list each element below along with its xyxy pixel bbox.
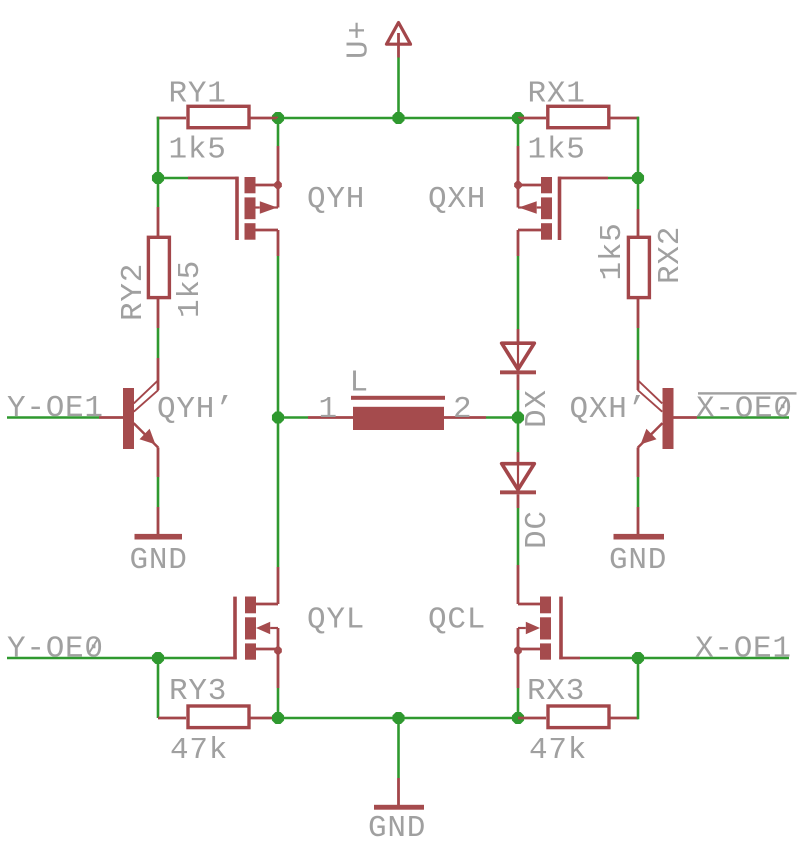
wire QYL source down	[277, 651, 280, 719]
label Y-OE1	[7, 391, 104, 426]
junction top rail / QXH source	[512, 112, 524, 124]
wire net Y-OE1	[7, 416, 99, 419]
svg-text:RY2: RY2	[116, 263, 151, 321]
wire top rail left segment	[278, 117, 399, 120]
junction top rail / QYH source	[272, 112, 284, 124]
svg-text:RX2: RX2	[653, 226, 688, 284]
svg-text:DC: DC	[520, 510, 555, 549]
wire GND stem	[397, 718, 400, 805]
wire net X-OE1	[638, 657, 789, 660]
junction top rail / V+	[392, 112, 404, 124]
diode DX	[500, 329, 536, 390]
label QYH'	[157, 392, 234, 427]
svg-text:RX3: RX3	[527, 674, 585, 709]
resistor RX1	[518, 106, 639, 127]
resistor RY1	[157, 106, 278, 127]
svg-text:GND: GND	[609, 543, 667, 578]
junction X-OE1 / RX3	[632, 652, 644, 664]
wire Y-OE0 node down to RY3	[157, 658, 160, 718]
label RY2	[116, 263, 151, 321]
label Y-OE0	[7, 632, 104, 667]
label DX	[520, 389, 555, 428]
svg-text:QYH’: QYH’	[157, 392, 234, 427]
wire RY2 to QYH' collector	[157, 328, 160, 390]
junction X gate node	[632, 172, 644, 184]
label RX1	[528, 77, 586, 112]
wire RX2 to QXH' collector	[637, 328, 640, 390]
label GND (bottom)	[368, 811, 426, 846]
wire QYH drain down	[277, 230, 280, 418]
wire bottom rail left segment	[278, 717, 399, 720]
wire QYH source to top rail	[277, 118, 280, 185]
junction Y gate node	[152, 172, 164, 184]
wire gate node to RY2	[157, 178, 160, 236]
label L	[350, 366, 369, 401]
wire bottom rail right segment	[399, 717, 519, 720]
wire QXH drain down to DX	[517, 230, 520, 329]
label QXH'	[570, 392, 647, 427]
wire QCL gate to X-OE1 node	[559, 657, 638, 660]
wire node to DC	[517, 418, 520, 453]
label RX3	[527, 674, 585, 709]
label GND (right)	[609, 543, 667, 578]
svg-text:GND: GND	[130, 543, 188, 578]
value 1k5 (RY2)	[173, 260, 208, 318]
wire gate node to QYH gate	[158, 177, 239, 180]
pin 2 label	[453, 392, 472, 427]
resistor RY3	[158, 706, 278, 728]
svg-text:QYH: QYH	[307, 182, 365, 217]
value 1k5 (RX1)	[528, 133, 586, 168]
svg-text:RY1: RY1	[169, 77, 227, 112]
svg-text:L: L	[350, 366, 369, 401]
pin 1 label	[319, 392, 338, 427]
wire net Y-OE0	[7, 657, 158, 660]
label RY3	[169, 674, 227, 709]
wire QXH gate to X gate node	[558, 177, 638, 180]
wire QCL source down	[517, 651, 520, 719]
svg-text:X-OE1: X-OE1	[695, 632, 792, 667]
value 47k (RX3)	[529, 733, 587, 768]
wire QYL drain up	[277, 418, 280, 605]
junction bottom rail right	[512, 712, 524, 724]
svg-text:DX: DX	[520, 389, 555, 428]
ground (right)	[614, 534, 665, 540]
svg-text:QXH: QXH	[428, 182, 486, 217]
label RX2	[653, 226, 688, 284]
label QYL	[307, 603, 365, 638]
label GND (left)	[130, 543, 188, 578]
wire net X-OE0	[697, 416, 789, 419]
wire gate node to RX2	[637, 178, 640, 236]
transistor QYL	[235, 597, 282, 660]
svg-text:1k5: 1k5	[169, 133, 227, 168]
junction bottom rail / GND stem	[392, 712, 404, 724]
transistor QYH'	[99, 381, 158, 449]
wire RX1 right to X gate node	[637, 117, 640, 178]
label QCL	[428, 603, 486, 638]
ground (bottom)	[374, 805, 424, 810]
wire Y-OE0 to QYL gate	[158, 657, 237, 660]
label QYH	[307, 182, 365, 217]
svg-text:1: 1	[319, 392, 338, 427]
svg-text:QXH’: QXH’	[570, 392, 647, 427]
transistor QYH	[237, 177, 282, 240]
wire L pin2 net	[486, 416, 518, 419]
svg-text:RY3: RY3	[169, 674, 227, 709]
value 1k5 (RY1)	[169, 133, 227, 168]
wire QXH source to top rail	[517, 118, 520, 185]
ground (left)	[135, 534, 183, 540]
label U+	[342, 20, 377, 59]
label QXH	[428, 182, 486, 217]
svg-text:QCL: QCL	[428, 603, 486, 638]
transistor QCL	[514, 597, 561, 660]
label DC	[520, 510, 555, 549]
junction node L pin 2 / DX / DC	[512, 411, 524, 423]
junction node L pin 1	[272, 411, 284, 423]
inductor L	[308, 396, 486, 430]
transistor QXH'	[638, 381, 697, 449]
transistor QXH	[514, 177, 559, 240]
wire L pin1 net	[278, 416, 308, 419]
svg-text:X-OE0: X-OE0	[696, 392, 793, 427]
wire RX3 right up to X-OE1 node	[637, 658, 640, 719]
resistor RY2	[148, 237, 169, 328]
power symbol V+ (U+)	[387, 23, 411, 58]
svg-text:1k5: 1k5	[528, 133, 586, 168]
svg-text:Y-OE0: Y-OE0	[7, 632, 104, 667]
svg-text:RX1: RX1	[528, 77, 586, 112]
svg-text:U+: U+	[342, 20, 377, 59]
svg-text:2: 2	[453, 392, 472, 427]
value 1k5 (RX2)	[595, 222, 630, 280]
resistor RX3	[518, 706, 638, 728]
svg-text:GND: GND	[368, 811, 426, 846]
junction bottom rail left	[272, 712, 284, 724]
junction Y-OE0 / RY3	[152, 652, 164, 664]
wire QXH' emitter to GND	[637, 448, 640, 535]
wire V+ stem	[397, 58, 400, 119]
svg-text:1k5: 1k5	[595, 222, 630, 280]
wire DX to node	[517, 390, 520, 418]
svg-text:1k5: 1k5	[173, 260, 208, 318]
label X-OE0 (active low)	[696, 392, 797, 427]
resistor RX2	[628, 237, 649, 328]
value 47k (RY3)	[170, 733, 228, 768]
diode DC	[500, 452, 536, 508]
svg-text:QYL: QYL	[307, 603, 365, 638]
wire RY1 left to gate node	[157, 117, 160, 178]
label RY1	[169, 77, 227, 112]
label X-OE1	[695, 632, 792, 667]
svg-text:Y-OE1: Y-OE1	[7, 391, 104, 426]
svg-text:47k: 47k	[529, 733, 587, 768]
wire DC to QCL drain	[517, 508, 520, 604]
wire QYH' emitter to GND	[157, 448, 160, 535]
svg-text:47k: 47k	[170, 733, 228, 768]
wire top rail right segment	[399, 117, 519, 120]
